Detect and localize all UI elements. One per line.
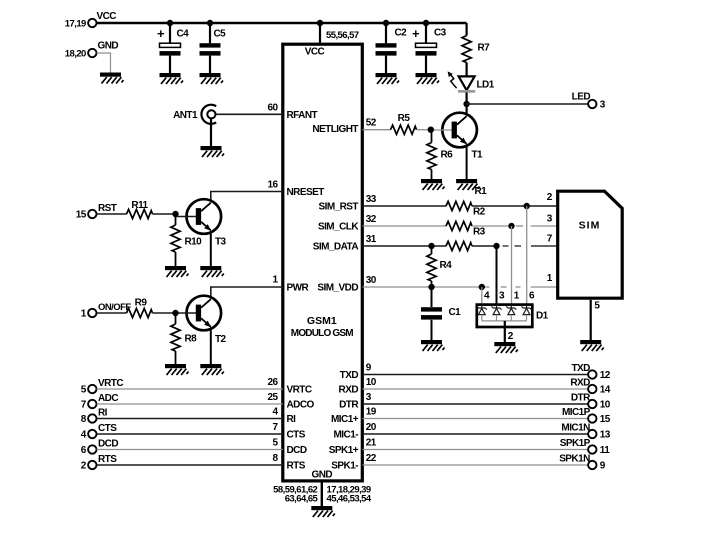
wire C1 to ground bbox=[431, 320, 433, 340]
svg-text:RXD: RXD bbox=[339, 385, 359, 396]
svg-text:RI: RI bbox=[287, 414, 297, 425]
wire RI to IC bbox=[97, 418, 283, 420]
ground below C1 bbox=[421, 340, 445, 351]
wire R10 to ground bbox=[175, 252, 177, 266]
svg-text:DCD: DCD bbox=[287, 445, 307, 456]
wire ANT1 to RFANT pin 60 bbox=[216, 113, 283, 115]
svg-text:15: 15 bbox=[600, 414, 611, 425]
svg-text:17,19: 17,19 bbox=[65, 19, 86, 30]
resistor R7 bbox=[466, 23, 468, 36]
node junction rail-C2 bbox=[383, 20, 389, 26]
svg-text:CTS: CTS bbox=[98, 423, 117, 434]
ground below ANT1 bbox=[201, 146, 225, 157]
svg-text:SPK1-: SPK1- bbox=[331, 461, 358, 472]
wire junction SIM_DATA to D1 pin 3 bbox=[496, 246, 498, 305]
wire T3 collector to NRESET pin 16 bbox=[211, 192, 283, 200]
svg-text:C4: C4 bbox=[177, 29, 190, 40]
svg-text:VCC: VCC bbox=[305, 47, 325, 58]
resistor R2 bbox=[446, 221, 472, 230]
resistor R6 bbox=[431, 130, 433, 143]
svg-text:C1: C1 bbox=[449, 307, 462, 318]
svg-text:63,64,65: 63,64,65 bbox=[285, 493, 319, 504]
transistor T2 bbox=[187, 296, 222, 331]
ground below C5 bbox=[200, 73, 224, 84]
svg-text:SIM_DATA: SIM_DATA bbox=[313, 242, 359, 253]
svg-text:+: + bbox=[412, 26, 420, 41]
wire C3 to ground bbox=[425, 56, 427, 73]
svg-text:DTR: DTR bbox=[339, 400, 359, 411]
wire CTS to IC bbox=[97, 433, 283, 435]
svg-text:R11: R11 bbox=[131, 200, 148, 211]
wire ANT1 to ground bbox=[210, 118, 212, 146]
wire R1 to SIM pin 2 bbox=[472, 205, 558, 207]
diode D1c bbox=[510, 305, 512, 308]
svg-text:ADC: ADC bbox=[98, 393, 118, 404]
wire SIM pin 5 to ground bbox=[590, 300, 592, 340]
wire SIM_VDD crossing segments bbox=[501, 286, 507, 288]
wire T2 emitter to ground bbox=[210, 330, 212, 364]
transistor T3 bbox=[187, 199, 222, 234]
svg-text:LED: LED bbox=[572, 92, 591, 103]
wire D1 common bus bbox=[482, 320, 527, 322]
svg-text:PWR: PWR bbox=[287, 283, 310, 294]
svg-text:21: 21 bbox=[366, 437, 377, 448]
node junction R11-R10-T3 bbox=[172, 211, 178, 217]
svg-text:15: 15 bbox=[76, 210, 87, 221]
svg-text:32: 32 bbox=[366, 214, 377, 225]
wire R7 to LD1 bbox=[466, 63, 468, 78]
resistor R11 bbox=[127, 209, 153, 218]
svg-text:ADCO: ADCO bbox=[287, 400, 315, 411]
wire ADC to IC bbox=[97, 403, 283, 405]
terminal VRTC pin 5 bbox=[88, 385, 96, 393]
terminal CTS pin 4 bbox=[88, 430, 96, 438]
svg-text:T1: T1 bbox=[472, 150, 484, 161]
svg-text:TXD: TXD bbox=[340, 370, 359, 381]
svg-text:31: 31 bbox=[366, 234, 377, 245]
svg-text:R6: R6 bbox=[441, 150, 454, 161]
svg-text:GSM1: GSM1 bbox=[307, 315, 337, 327]
svg-text:SIM_CLK: SIM_CLK bbox=[318, 222, 359, 233]
resistor R10 bbox=[175, 214, 177, 225]
svg-text:52: 52 bbox=[366, 118, 377, 129]
wire R5 to T1 base bbox=[417, 129, 431, 131]
wire R6 to ground bbox=[431, 170, 433, 180]
wire SIM_DATA crossing segments bbox=[503, 245, 509, 247]
terminal GND pins 18,20 bbox=[88, 49, 96, 57]
ground below C2 bbox=[376, 73, 400, 84]
diode array D1 box bbox=[477, 305, 533, 327]
ground below T1 bbox=[456, 179, 480, 190]
wire SIM_RST to R1 bbox=[362, 205, 446, 207]
svg-text:12: 12 bbox=[600, 370, 611, 381]
ground below T3 bbox=[200, 266, 224, 277]
ground below R10 bbox=[165, 266, 189, 277]
wire LED junction to terminal bbox=[467, 103, 589, 105]
wire junction SIM_CLK to D1 pin 1 bbox=[511, 226, 513, 305]
svg-text:RFANT: RFANT bbox=[287, 110, 318, 121]
wire SIM_VDD to C1 bbox=[431, 287, 433, 307]
svg-text:MIC1+: MIC1+ bbox=[331, 414, 359, 425]
svg-text:R2: R2 bbox=[473, 207, 486, 218]
svg-text:VCC: VCC bbox=[97, 11, 117, 22]
wire TXD to terminal bbox=[362, 374, 588, 376]
svg-text:T2: T2 bbox=[215, 334, 227, 345]
svg-text:TXD: TXD bbox=[571, 363, 590, 374]
terminal ADC pin 7 bbox=[88, 400, 96, 408]
wire R3 to junction bbox=[472, 245, 497, 247]
svg-text:R7: R7 bbox=[478, 43, 491, 54]
svg-text:30: 30 bbox=[366, 275, 377, 286]
svg-text:10: 10 bbox=[600, 400, 611, 411]
resistor R5 bbox=[391, 125, 417, 134]
node junction SIM_DATA-R4 bbox=[428, 243, 434, 249]
svg-text:10: 10 bbox=[366, 377, 377, 388]
svg-text:19: 19 bbox=[366, 406, 377, 417]
LED LD1 bbox=[459, 76, 475, 90]
wire GND terminal to ground bbox=[97, 53, 111, 73]
wire R11 to T3 base bbox=[153, 213, 176, 215]
wire T3 emitter to ground bbox=[210, 234, 212, 266]
wire VRTC to IC bbox=[97, 388, 283, 390]
node junction R9-R8-T2 bbox=[172, 310, 178, 316]
ground below IC bbox=[311, 506, 335, 517]
svg-text:NRESET: NRESET bbox=[287, 187, 325, 198]
diode D1b bbox=[496, 305, 498, 308]
svg-text:25: 25 bbox=[267, 392, 278, 403]
capacitor C4 bbox=[160, 43, 181, 47]
node junction at T1 base bbox=[428, 127, 434, 133]
svg-text:RXD: RXD bbox=[570, 377, 590, 388]
svg-text:20: 20 bbox=[366, 422, 377, 433]
svg-text:SIM_VDD: SIM_VDD bbox=[317, 283, 358, 294]
svg-text:C5: C5 bbox=[214, 29, 227, 40]
svg-text:18,20: 18,20 bbox=[65, 49, 86, 60]
wire rail to C4 bbox=[169, 23, 171, 43]
wire junction SIM_VDD to D1 pin 4 bbox=[481, 287, 483, 305]
svg-text:R3: R3 bbox=[473, 227, 486, 238]
svg-text:SIM: SIM bbox=[579, 220, 601, 232]
svg-text:NETLIGHT: NETLIGHT bbox=[312, 124, 358, 135]
svg-text:R4: R4 bbox=[440, 260, 453, 271]
wire IC GND stub bbox=[321, 483, 323, 507]
svg-text:R9: R9 bbox=[135, 298, 148, 309]
terminal RI pin 8 bbox=[88, 414, 96, 422]
wire T1 emitter to ground bbox=[466, 147, 468, 179]
wire junction SIM_RST to D1 pin 6 bbox=[526, 206, 528, 305]
svg-text:GND: GND bbox=[98, 41, 119, 52]
node junction rail-IC VCC bbox=[317, 20, 323, 26]
svg-text:R10: R10 bbox=[185, 237, 203, 248]
diode D1a bbox=[481, 305, 483, 308]
svg-text:R5: R5 bbox=[398, 113, 411, 124]
svg-text:R8: R8 bbox=[185, 334, 198, 345]
ground below GND terminal bbox=[100, 73, 124, 84]
node junction SIM_CLK bbox=[508, 223, 514, 229]
svg-text:SPK1P: SPK1P bbox=[560, 438, 591, 449]
pin 55,56,57 VCC stub bbox=[319, 23, 321, 43]
svg-text:26: 26 bbox=[267, 377, 278, 388]
svg-text:RTS: RTS bbox=[98, 454, 117, 465]
svg-text:GND: GND bbox=[312, 469, 333, 480]
svg-text:SPK1N: SPK1N bbox=[559, 453, 590, 464]
svg-text:45,46,53,54: 45,46,53,54 bbox=[327, 493, 372, 504]
terminal DCD pin 6 bbox=[88, 445, 96, 453]
wire MIC1+ to terminal bbox=[362, 418, 588, 420]
node junction LED bbox=[463, 101, 469, 107]
ground below R8 bbox=[165, 364, 189, 375]
wire DCD to IC bbox=[97, 449, 283, 451]
resistor R1 bbox=[446, 201, 472, 210]
ground below T2 bbox=[200, 364, 224, 375]
wire SIM_DATA to R3 bbox=[362, 245, 446, 247]
terminal RTS pin 2 bbox=[88, 461, 96, 469]
wire MIC1- to terminal bbox=[362, 433, 588, 435]
wire SIM_CLK crossing segments bbox=[516, 225, 523, 227]
svg-text:R1: R1 bbox=[475, 186, 488, 197]
svg-text:33: 33 bbox=[366, 194, 377, 205]
wire ON/OFF to R9 bbox=[97, 312, 127, 314]
wire rail to C5 bbox=[209, 23, 211, 43]
svg-text:DCD: DCD bbox=[98, 439, 118, 450]
op-amp U1 GSM1 module box bbox=[283, 44, 363, 481]
svg-text:VRTC: VRTC bbox=[287, 385, 312, 396]
svg-text:60: 60 bbox=[267, 102, 278, 113]
capacitor C1 bbox=[421, 307, 442, 311]
capacitor C2 bbox=[376, 43, 397, 47]
wire R9 to T2 base bbox=[153, 312, 176, 314]
resistor R3 bbox=[446, 241, 472, 250]
SIM card connector bbox=[558, 191, 623, 298]
node junction SIM_RST bbox=[524, 203, 530, 209]
svg-text:CTS: CTS bbox=[287, 430, 306, 441]
ground below C4 bbox=[160, 73, 184, 84]
ground below SIM bbox=[580, 340, 604, 351]
svg-text:22: 22 bbox=[366, 453, 377, 464]
capacitor C5 bbox=[200, 43, 221, 47]
resistor R4 bbox=[431, 246, 433, 254]
capacitor C3 bbox=[416, 43, 437, 47]
svg-text:C2: C2 bbox=[395, 28, 408, 39]
wire C5 to ground bbox=[209, 56, 211, 73]
wire VCC rail bbox=[97, 22, 467, 24]
svg-text:MIC1-: MIC1- bbox=[334, 430, 359, 441]
node junction rail-C5 bbox=[207, 20, 213, 26]
wire RTS to IC bbox=[97, 464, 283, 466]
transistor T1 bbox=[442, 113, 477, 148]
svg-text:C3: C3 bbox=[434, 28, 447, 39]
wire D1 pin 2 to ground bbox=[504, 321, 506, 342]
ground below D1 bbox=[494, 342, 518, 353]
svg-text:T3: T3 bbox=[215, 237, 227, 248]
svg-text:55,56,57: 55,56,57 bbox=[326, 30, 359, 41]
svg-text:16: 16 bbox=[267, 180, 278, 191]
wire RST to R11 bbox=[97, 213, 127, 215]
diode D1d bbox=[526, 305, 528, 308]
wire C4 to ground bbox=[169, 56, 171, 73]
svg-text:MODULO GSM: MODULO GSM bbox=[291, 328, 353, 339]
terminal ON/OFF pin 1 bbox=[88, 309, 96, 317]
wire SPK1+ to terminal bbox=[362, 449, 588, 451]
svg-text:MIC1N: MIC1N bbox=[561, 422, 590, 433]
svg-text:RTS: RTS bbox=[287, 461, 306, 472]
terminal RST pin 15 bbox=[88, 210, 96, 218]
wire C2 to ground bbox=[385, 56, 387, 73]
wire LD1 to T1 collector bbox=[466, 93, 468, 113]
svg-text:+: + bbox=[157, 26, 165, 41]
svg-text:ANT1: ANT1 bbox=[173, 110, 198, 121]
wire SPK1- to terminal bbox=[362, 464, 588, 466]
svg-text:LD1: LD1 bbox=[477, 80, 495, 91]
svg-text:11: 11 bbox=[600, 445, 610, 456]
svg-text:SIM_RST: SIM_RST bbox=[319, 202, 359, 213]
node junction SIM_DATA-D1 bbox=[493, 243, 499, 249]
svg-text:13: 13 bbox=[600, 430, 611, 441]
wire rail to C2 bbox=[385, 23, 387, 43]
node junction rail-C3 bbox=[423, 20, 429, 26]
wire R8 to ground bbox=[175, 351, 177, 364]
wire T2 collector to PWR pin 1 bbox=[211, 287, 283, 296]
node junction SIM_VDD-D1 bbox=[479, 284, 485, 290]
svg-text:RST: RST bbox=[98, 203, 117, 214]
antenna ANT1 bbox=[201, 105, 216, 124]
terminal VCC pins 17,19 bbox=[88, 19, 96, 27]
node junction rail-C4 bbox=[167, 20, 173, 26]
svg-text:VRTC: VRTC bbox=[98, 378, 123, 389]
svg-text:D1: D1 bbox=[536, 311, 549, 322]
ground below R6 bbox=[421, 179, 445, 190]
resistor R9 bbox=[127, 308, 153, 317]
svg-text:14: 14 bbox=[600, 385, 611, 396]
wire DTR to terminal bbox=[362, 403, 588, 405]
svg-text:RI: RI bbox=[98, 408, 108, 419]
wire rail to C3 bbox=[425, 23, 427, 43]
ground below C3 bbox=[416, 73, 440, 84]
node junction SIM_VDD-R4-C1 bbox=[428, 284, 434, 290]
wire SIM_VDD row bbox=[362, 286, 489, 288]
resistor R8 bbox=[175, 313, 177, 324]
svg-text:SPK1+: SPK1+ bbox=[329, 445, 359, 456]
wire R2 to junction bbox=[472, 225, 512, 227]
svg-text:MIC1P: MIC1P bbox=[562, 407, 591, 418]
wire SIM_CLK to R2 bbox=[362, 225, 446, 227]
wire RXD to terminal bbox=[362, 388, 588, 390]
wire NETLIGHT pin 52 to R5 bbox=[362, 129, 390, 131]
